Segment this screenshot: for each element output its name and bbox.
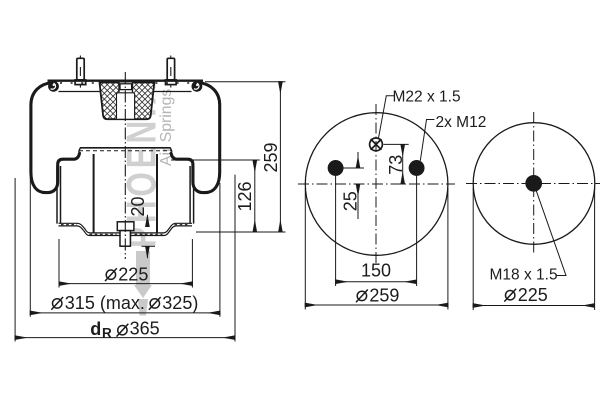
svg-text:73: 73 (386, 155, 406, 175)
svg-text:20: 20 (128, 196, 148, 216)
svg-text:2x M12: 2x M12 (436, 114, 487, 131)
svg-text:225: 225 (518, 285, 548, 305)
svg-text:325): 325) (162, 293, 198, 313)
svg-text:25: 25 (340, 191, 360, 211)
svg-text:259: 259 (261, 142, 281, 172)
svg-text:M18 x 1.5: M18 x 1.5 (490, 267, 558, 284)
svg-text:126: 126 (235, 181, 255, 211)
svg-text:225: 225 (118, 264, 148, 284)
svg-text:365: 365 (130, 318, 160, 338)
svg-text:259: 259 (369, 286, 399, 306)
svg-text:d: d (90, 319, 101, 339)
svg-text:150: 150 (361, 261, 391, 281)
svg-text:R: R (102, 326, 112, 341)
svg-text:315 (max.: 315 (max. (65, 293, 145, 313)
svg-text:M22 x 1.5: M22 x 1.5 (393, 88, 461, 105)
